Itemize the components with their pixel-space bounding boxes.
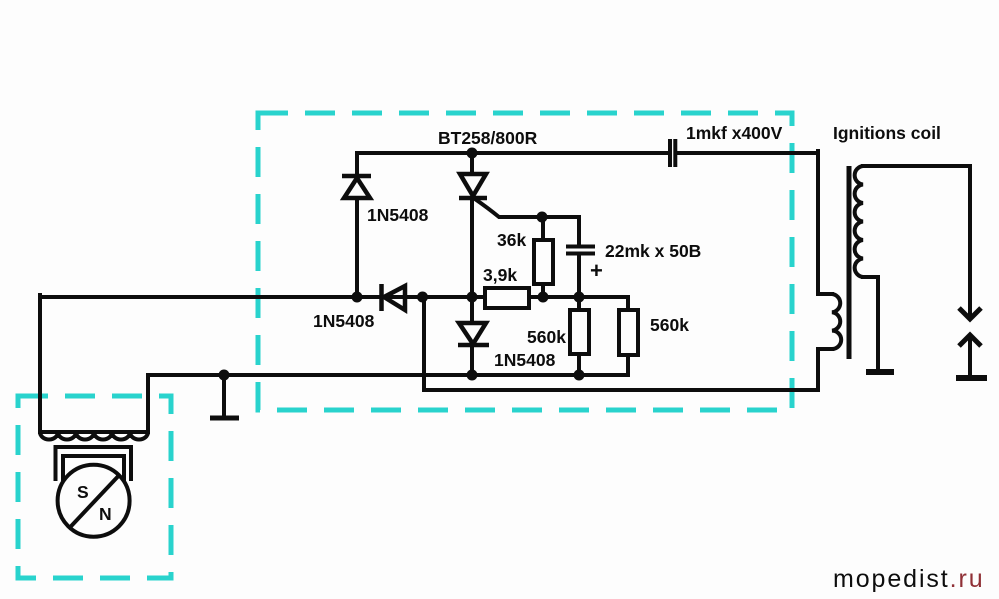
svg-text:N: N: [99, 504, 112, 524]
junction node C2 bottom: [574, 292, 585, 303]
magneto pickup bracket outer: [56, 447, 132, 481]
wire 560k right top lead: [626, 297, 630, 310]
wire 36k bottom lead: [541, 284, 545, 297]
magneto rotor circle: [58, 465, 130, 537]
wire main bus right segment: [529, 295, 628, 299]
ground G1 (magneto circuit): [210, 416, 239, 421]
svg-text:1N5408: 1N5408: [313, 311, 375, 331]
svg-text:+: +: [590, 258, 603, 283]
ignition coil core: [847, 166, 852, 359]
resistor R4 560k right: [619, 310, 638, 355]
CDI unit dashed box: [258, 113, 792, 410]
svg-text:3,9k: 3,9k: [483, 265, 517, 285]
wire main bus left segment: [40, 295, 485, 299]
wire secondary bottom lead: [863, 277, 878, 370]
svg-text:S: S: [77, 482, 89, 502]
junction node thyristor cathode bus: [467, 292, 478, 303]
junction node top (thyristor anode): [467, 148, 478, 159]
wire left diode branch lower: [355, 198, 359, 297]
thyristor BT258/800R: [459, 174, 487, 198]
resistor R3 560k left: [570, 310, 589, 354]
svg-text:560k: 560k: [650, 315, 689, 335]
wire bottom diode bottom lead: [470, 345, 474, 375]
wire bottom return bus: [424, 388, 818, 392]
svg-text:22mk x 50B: 22mk x 50B: [605, 241, 701, 261]
wire 560k right bottom lead: [626, 355, 630, 375]
wire left diode branch upper: [355, 153, 359, 176]
svg-text:mopedist.ru: mopedist.ru: [833, 565, 985, 593]
wire thyristor cathode to main bus: [470, 198, 474, 297]
wire riser bottom bus to main bus: [422, 297, 426, 390]
wire spark gap upper lead: [968, 166, 972, 316]
wire thyristor anode: [470, 153, 474, 174]
wire ground bus y375: [148, 373, 628, 377]
junction node ground bus/560k: [574, 370, 585, 381]
ignition coil primary winding: [832, 294, 841, 349]
wire spark gap lower lead: [968, 338, 972, 377]
svg-text:1mkf x400V: 1mkf x400V: [686, 123, 783, 143]
wire top bus left of C1: [357, 151, 666, 155]
magneto rotor diagonal: [70, 475, 120, 528]
junction node ground bus/D3: [467, 370, 478, 381]
wire right drop to primary: [818, 151, 832, 294]
diode D1 1N5408 (left, vertical): [342, 176, 371, 198]
junction node 36k bottom: [538, 292, 549, 303]
spark gap electrode bottom: [959, 335, 981, 346]
ground G3 (secondary): [866, 369, 894, 375]
wire 36k top lead: [541, 217, 545, 240]
svg-text:1N5408: 1N5408: [494, 350, 556, 370]
wire ground1 stem: [222, 375, 226, 416]
wire C2 bottom lead: [577, 254, 581, 297]
wire primary bottom jog: [818, 349, 832, 390]
svg-text:BT258/800R: BT258/800R: [438, 128, 538, 148]
wire bottom diode top lead: [470, 297, 474, 323]
magneto coil L1: [40, 432, 148, 440]
wire top bus right of C1: [679, 151, 818, 155]
junction node D1 bottom: [352, 292, 363, 303]
junction node ground bus/G1: [219, 370, 230, 381]
wire 560k left bottom lead: [577, 354, 581, 375]
magneto pickup bracket inner: [63, 456, 124, 481]
svg-text:1N5408: 1N5408: [367, 205, 429, 225]
resistor R2 36k: [534, 240, 553, 284]
svg-text:560k: 560k: [527, 327, 566, 347]
svg-text:Ignitions coil: Ignitions coil: [833, 123, 941, 143]
junction node gate/36k: [537, 212, 548, 223]
wire C2 top lead: [577, 217, 581, 246]
resistor R1 3,9k: [485, 288, 529, 308]
ground G2 (spark gap): [956, 375, 987, 381]
svg-text:36k: 36k: [497, 230, 526, 250]
ignition coil secondary winding: [855, 166, 863, 277]
magneto dashed box: [18, 396, 171, 578]
wire gate lead: [475, 199, 579, 217]
wire magneto right lead: [146, 375, 150, 432]
wire secondary top: [863, 164, 970, 168]
wire magneto left lead: [38, 295, 42, 432]
capacitor C1 1mkf x400V: [670, 139, 675, 167]
capacitor C2 22mk x 50B: [566, 247, 595, 254]
diode D3 1N5408 (bottom, vertical): [458, 323, 489, 345]
spark gap electrode top: [959, 308, 981, 319]
diode D2 1N5408 (middle, horizontal): [382, 284, 406, 311]
wire 560k left top lead: [577, 297, 581, 310]
junction node main/riser: [417, 292, 428, 303]
